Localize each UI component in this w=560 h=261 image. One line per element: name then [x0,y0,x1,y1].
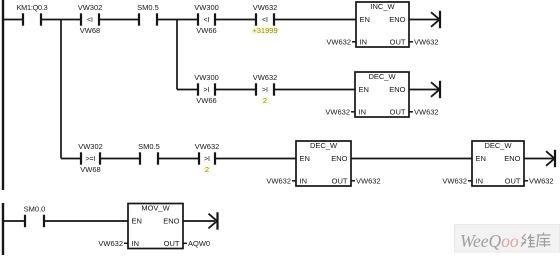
svg-text:EN: EN [360,15,370,24]
svg-text:DEC_W: DEC_W [368,72,396,81]
svg-text:IN: IN [360,37,368,46]
svg-text:ENO: ENO [163,217,179,226]
svg-text:VW632: VW632 [195,142,220,151]
svg-text:<I: <I [262,17,268,24]
svg-text:INC_W: INC_W [370,2,395,11]
svg-text:VW632: VW632 [414,107,439,116]
svg-text:AQW0: AQW0 [188,239,210,248]
svg-text:VW632: VW632 [253,73,278,82]
svg-text:VW66: VW66 [196,96,216,105]
svg-text:SM0.5: SM0.5 [138,142,160,151]
svg-text:SM0.0: SM0.0 [24,205,46,214]
svg-text:OUT: OUT [505,176,521,185]
svg-text:OUT: OUT [390,37,406,46]
svg-text:ENO: ENO [504,154,520,163]
svg-text:>I: >I [203,87,209,94]
svg-text:VW632: VW632 [266,176,291,185]
svg-text:IN: IN [300,176,308,185]
svg-text:WeeQoo: WeeQoo [460,231,519,251]
svg-text:OUT: OUT [164,239,180,248]
svg-text:OUT: OUT [390,107,406,116]
svg-text:VW632: VW632 [325,107,350,116]
svg-text:ENO: ENO [389,85,405,94]
svg-text:2: 2 [263,96,267,105]
svg-text:VW632: VW632 [529,176,554,185]
svg-text:VW66: VW66 [196,26,216,35]
svg-text:>I: >I [262,87,268,94]
svg-text:<I: <I [87,17,93,24]
svg-text:>I: >I [204,156,210,163]
svg-text:ENO: ENO [389,15,405,24]
svg-text:+31999: +31999 [252,26,277,35]
svg-text:VW68: VW68 [80,165,100,174]
svg-text:VW632: VW632 [356,176,381,185]
svg-text:VW632: VW632 [98,239,123,248]
svg-text:IN: IN [132,239,140,248]
svg-text:IN: IN [476,176,484,185]
svg-text:<I: <I [203,17,209,24]
svg-text:EN: EN [476,154,486,163]
svg-text:IN: IN [359,107,367,116]
svg-text:DEC_W: DEC_W [484,141,512,150]
svg-text:EN: EN [132,217,142,226]
svg-text:2: 2 [205,165,209,174]
svg-text:VW302: VW302 [78,142,103,151]
svg-text:DEC_W: DEC_W [310,141,338,150]
svg-text:VW632: VW632 [253,3,278,12]
svg-text:VW302: VW302 [78,3,103,12]
svg-text:OUT: OUT [332,176,348,185]
svg-text:SM0.5: SM0.5 [137,3,159,12]
svg-text:VW632: VW632 [326,37,351,46]
svg-text:VW68: VW68 [80,26,100,35]
svg-text:ENO: ENO [331,154,347,163]
svg-text:VW632: VW632 [414,37,439,46]
svg-text:KM1:Q0.3: KM1:Q0.3 [17,3,48,12]
svg-text:EN: EN [359,85,369,94]
svg-text:MOV_W: MOV_W [141,204,170,213]
svg-text:>=I: >=I [85,156,95,163]
svg-text:VW632: VW632 [442,176,467,185]
svg-text:EN: EN [300,154,310,163]
svg-text:VW300: VW300 [194,3,219,12]
svg-text:VW300: VW300 [194,73,219,82]
